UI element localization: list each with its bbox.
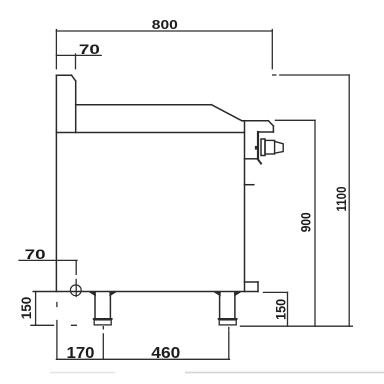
- knob shaft nub: [255, 146, 258, 150]
- back edge: [244, 121, 246, 292]
- right foot: [219, 320, 236, 325]
- svg-text:70: 70: [79, 41, 100, 57]
- left leg gusset R: [110, 292, 115, 295]
- dim 460 right extension (right leg center): [228, 328, 230, 360]
- left foot: [94, 320, 111, 325]
- rear right short edge: [272, 126, 274, 132]
- right leg gusset R: [235, 292, 240, 295]
- knob cap: [275, 141, 284, 153]
- left leg tube: [95, 292, 110, 318]
- control box top: [258, 131, 274, 133]
- dim 70 top right extension: [75, 54, 77, 69]
- rear top edge: [242, 120, 268, 122]
- dim 70 mid line: [19, 259, 77, 261]
- inner bracket tick: [245, 184, 254, 186]
- right leg tube: [220, 292, 235, 318]
- dim 800 right extension: [271, 30, 273, 69]
- left leg flange: [93, 318, 113, 320]
- dim 70 mid extension dashdot: [75, 260, 77, 296]
- svg-text:1100: 1100: [334, 187, 349, 212]
- left leg gusset L: [90, 292, 95, 295]
- dim 150 left line: [35, 292, 37, 326]
- dim 150 right line: [287, 292, 289, 326]
- worktop surface: [76, 104, 212, 106]
- dim 70 top line: [56, 54, 101, 56]
- dim 900 line: [314, 120, 316, 326]
- right leg gusset L: [215, 292, 220, 295]
- svg-text:150: 150: [273, 299, 288, 320]
- knob flange: [261, 139, 265, 156]
- dim 900 top connector: [275, 119, 315, 121]
- dim 800 left extension: [55, 30, 57, 69]
- svg-text:460: 460: [151, 345, 180, 362]
- knob plate: [257, 132, 259, 159]
- bottom right reference line: [241, 325, 353, 327]
- svg-text:170: 170: [67, 345, 95, 362]
- plate bottom lip: [258, 160, 261, 164]
- backsplash top edge: [56, 74, 71, 76]
- dim 1100 line: [348, 75, 350, 326]
- mid horizontal band line: [56, 132, 244, 134]
- centerline dot at backsplash top level: [273, 74, 276, 76]
- body bottom: [33, 291, 258, 293]
- right leg flange: [218, 318, 238, 320]
- gas box top: [245, 281, 259, 283]
- backsplash right edge: [75, 81, 77, 133]
- dim 170 left extension dashdot: [56, 303, 58, 360]
- dim 800 line: [56, 30, 272, 32]
- dim 1100 top connector: [280, 74, 349, 76]
- svg-text:150: 150: [19, 297, 34, 320]
- dim 150 right top connector: [264, 291, 288, 293]
- body front edge: [55, 75, 57, 291]
- dim 170 right extension (left leg center): [102, 327, 104, 360]
- backsplash chamfer: [72, 75, 76, 81]
- faint scan line at page bottom: [50, 372, 115, 374]
- front foot circle: [70, 285, 81, 296]
- svg-text:800: 800: [152, 17, 178, 32]
- rear top chamfer: [268, 121, 273, 126]
- svg-text:900: 900: [299, 212, 314, 232]
- knob body: [265, 140, 275, 154]
- svg-text:70: 70: [25, 246, 46, 262]
- gas box right: [257, 282, 259, 292]
- worktop rear slope: [211, 105, 242, 121]
- dim 150 left bottom connector dashdot: [31, 324, 76, 326]
- dim 170-460 baseline: [56, 358, 229, 360]
- control box bottom: [245, 158, 259, 160]
